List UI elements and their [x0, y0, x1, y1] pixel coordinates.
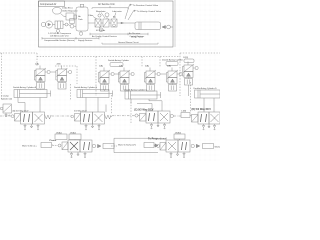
svg-text:To Direction Control Valve: To Direction Control Valve	[133, 4, 159, 7]
to velocity control valve label	[134, 10, 162, 13]
gauge circle left	[98, 14, 101, 17]
signal tag above VB2	[174, 133, 185, 141]
compressed air title box	[39, 1, 65, 7]
svg-text:2(A): 2(A)	[145, 65, 149, 68]
brace over service unit	[92, 6, 128, 9]
cylinder D	[195, 90, 221, 98]
dash-dot phase line y115	[0, 115, 192, 118]
signal dash-dot to VB2	[154, 145, 156, 147]
moisture drain circle	[56, 29, 59, 32]
valve V3 exhausts	[150, 123, 165, 129]
muffler under 4V1	[185, 78, 193, 86]
svg-text:Double Acting Cylinder: Double Acting Cylinder	[108, 59, 129, 62]
filter	[95, 19, 101, 27]
dashed divider x190	[190, 82, 192, 112]
cylinder A	[14, 90, 51, 98]
wire tank to service unit	[88, 22, 95, 24]
flow control valve 1V1	[34, 63, 56, 82]
horizontal receiver cylinder	[135, 22, 161, 30]
signal tag box 2	[69, 132, 81, 140]
annotation line compressed air section	[42, 37, 99, 42]
bottom valve VB2 pilot circle	[157, 145, 160, 148]
svg-text:40 PSI Air: 40 PSI Air	[96, 29, 106, 32]
bottom valve VB1 signal circle	[92, 144, 95, 147]
svg-text:Air Quality Control Devices: Air Quality Control Devices	[92, 35, 117, 38]
signal arrow 2	[155, 144, 158, 147]
bottom valve VB1 pilot circle	[58, 144, 61, 147]
signal arrow 1	[98, 144, 102, 147]
dashed border left edge	[1, 53, 3, 100]
svg-text:2(A): 2(A)	[99, 65, 103, 68]
svg-text:2(A): 2(A)	[35, 63, 39, 66]
leader lines from labels to pipe	[125, 5, 134, 20]
svg-text:Chiller/Separator: Chiller/Separator	[62, 9, 78, 12]
chiller separator label	[62, 7, 78, 13]
svg-text:Double Acting Cylinder A: Double Acting Cylinder A	[13, 86, 36, 89]
cylinder C	[125, 91, 161, 99]
top box right double border	[174, 0, 176, 47]
small reservoir B	[110, 63, 123, 67]
flow control valve 1V2	[56, 64, 72, 82]
wire cylinder D port 2 to valve 4	[213, 98, 215, 112]
svg-text:2(B): 2(B)	[167, 66, 171, 68]
flow control valve 3V1	[144, 65, 166, 84]
regulator gauge	[105, 13, 109, 19]
signal box 2	[144, 143, 154, 148]
signal wire chain mid	[111, 145, 117, 147]
wire cylinder A port 1 to valve 1	[18, 98, 25, 113]
wire compressor to aftercooler	[53, 24, 55, 26]
wire under 4V1	[188, 85, 190, 96]
wire cylinder C port 1 to valve 3	[131, 99, 152, 111]
svg-text:Air: Air	[78, 15, 81, 18]
tag wire into VB1	[74, 139, 76, 142]
wire cloud to chiller	[61, 14, 67, 17]
valve V2 exhausts	[85, 124, 100, 130]
receiver output arrow	[162, 26, 166, 29]
valve V2 pilot circle	[71, 115, 74, 118]
muffler under 1V2	[58, 82, 66, 90]
dashed divider x142	[141, 57, 143, 68]
pipe arrow marks	[121, 22, 124, 24]
wire under 3V1	[150, 90, 152, 92]
svg-text:Compressed Air Section (Source: Compressed Air Section (Source)	[44, 39, 75, 42]
dashed divider x111	[111, 95, 113, 114]
separator circle	[68, 24, 76, 28]
svg-text:1/2(k) Elect.: 1/2(k) Elect.	[62, 7, 74, 10]
dashed border step	[36, 53, 38, 67]
cylinder B	[77, 90, 113, 98]
signal wire left	[52, 144, 53, 146]
pilot riser V2	[105, 105, 107, 113]
check valve	[63, 23, 68, 26]
svg-text:2(B): 2(B)	[57, 64, 61, 66]
to direction control valve label	[130, 4, 159, 7]
bottom valve VB1 exhausts	[70, 152, 86, 158]
bottom valve VB2 exhausts	[170, 152, 185, 158]
wire cylinder C port 2 to valve 3	[149, 99, 162, 111]
valve V2	[75, 112, 112, 124]
chiller box	[66, 13, 77, 20]
svg-text:1.4(B): 1.4(B)	[181, 111, 187, 113]
annotation line general circuit	[102, 41, 158, 44]
signal arrow 3	[196, 144, 200, 147]
motor circle M	[41, 22, 46, 27]
svg-text:1V(8): 1V(8)	[183, 57, 188, 59]
muffler under 1V1	[37, 82, 45, 90]
dashed divider x70	[70, 84, 72, 100]
svg-text:with Aftercooler Unit: with Aftercooler Unit	[50, 34, 69, 37]
aftercooler box with coils	[55, 21, 63, 29]
valve V1 pilot circle	[11, 115, 14, 118]
svg-text:Air Receiver: Air Receiver	[129, 32, 141, 35]
tank drain circle	[79, 31, 82, 35]
air receiver tank	[76, 4, 88, 31]
svg-text:Double Acting Cylinder B: Double Acting Cylinder B	[74, 86, 98, 89]
wire under 1V1	[40, 88, 42, 91]
intake air cloud	[53, 8, 62, 15]
svg-text:Double Acting Cylinder: Double Acting Cylinder	[162, 59, 183, 62]
dashed divider x131	[130, 102, 132, 124]
receiver caption	[129, 32, 143, 38]
work note box	[41, 143, 52, 148]
valve V3	[138, 111, 170, 123]
dashed divider x96	[95, 57, 97, 97]
svg-text:Control Devices: Control Devices	[130, 35, 145, 38]
bottom valve VB2 signal circle	[191, 144, 194, 147]
signal dash-dot to VB1	[53, 145, 58, 147]
valve V2 signal out	[111, 116, 113, 118]
svg-text:(D) 5/2 Way DCV: (D) 5/2 Way DCV	[192, 108, 212, 111]
regulator label	[96, 10, 106, 18]
valve V1	[15, 112, 52, 124]
valve V4 exhausts	[202, 124, 215, 130]
bottom valve VB2	[160, 140, 190, 152]
wire under 2V1	[104, 90, 106, 92]
annotation line air quality devices	[90, 33, 148, 38]
small reservoir D	[184, 59, 194, 63]
valve V1 exhausts	[24, 124, 39, 130]
svg-text:Work(?): Work(?)	[215, 145, 221, 148]
compressor circle	[45, 21, 52, 28]
dashed border left top	[0, 52, 37, 54]
svg-text:Air Service Unit: Air Service Unit	[98, 3, 115, 6]
svg-text:Double Acting Cylinder D: Double Acting Cylinder D	[194, 87, 218, 90]
lubricator label	[112, 10, 122, 18]
dashed border middle top	[37, 56, 180, 58]
valve V3 signal circle	[170, 114, 173, 117]
signal box 3	[203, 144, 214, 149]
wire cylinder A port 2 to valve 1	[39, 98, 41, 113]
top box: compressed air station border	[39, 1, 174, 47]
svg-text:Piston: Piston	[50, 139, 57, 142]
filter drain circle	[99, 27, 103, 32]
dashed border right top	[180, 52, 220, 54]
wire frame bottom center	[114, 138, 158, 152]
svg-text:Supply Devices: Supply Devices	[78, 40, 92, 42]
valve V4	[192, 112, 221, 124]
svg-text:Work To Surface(?): Work To Surface(?)	[118, 144, 136, 147]
bottom valve VB1	[62, 140, 92, 152]
dashed divider x160	[159, 57, 161, 68]
filter label	[89, 14, 98, 19]
svg-text:To Proportional: To Proportional	[148, 137, 167, 140]
svg-text:= Clamp: = Clamp	[1, 96, 10, 98]
small reservoir C	[166, 62, 178, 66]
svg-text:General Steam Circuit: General Steam Circuit	[118, 41, 139, 44]
muffler under 2V1	[101, 84, 109, 92]
svg-text:1-1/2 HP Air Compressor: 1-1/2 HP Air Compressor	[48, 32, 71, 35]
clamp cylinder note	[1, 96, 12, 101]
signal box 1	[103, 144, 114, 149]
output circle	[167, 25, 173, 29]
compressor caption	[48, 32, 71, 38]
dashed enclosure G1	[55, 66, 77, 84]
limit switch valve 1S1	[0, 104, 11, 117]
muffler under 3V1	[147, 84, 155, 92]
svg-text:Filter: Filter	[89, 14, 94, 17]
flow control valve 2V1	[98, 65, 120, 84]
regulator	[103, 19, 109, 27]
valve V3 pilot circle	[135, 114, 138, 117]
dryer element	[70, 19, 74, 24]
signal tag box 1	[55, 132, 67, 140]
svg-text:2(B): 2(B)	[119, 66, 123, 68]
svg-text:Compressed Air: Compressed Air	[40, 3, 57, 6]
signal tag box 4	[181, 111, 190, 118]
flow control valve 3V2	[166, 66, 182, 84]
flow control valve 2V2	[118, 66, 134, 84]
svg-text:To Velocity Control Valve: To Velocity Control Valve	[137, 10, 162, 13]
muffler under 2V2	[121, 84, 129, 92]
svg-text:Work To Be at =: Work To Be at =	[22, 144, 38, 147]
flow control valve 4V1	[182, 62, 198, 78]
dashed divider x180	[179, 53, 181, 96]
wire cylinder B port 2 to valve 2	[97, 98, 99, 113]
muffler under 3V2	[169, 84, 177, 92]
svg-text:Cylinder (D): Cylinder (D)	[1, 98, 12, 101]
service unit wires	[101, 22, 135, 24]
wire cylinder B port 1 to valve 2	[85, 98, 87, 113]
wire cylinder D port 1 to valve 4	[203, 98, 205, 112]
lubricator	[96, 19, 117, 32]
svg-text:Regulator: Regulator	[96, 10, 106, 13]
svg-text:Lubricator: Lubricator	[112, 10, 122, 13]
